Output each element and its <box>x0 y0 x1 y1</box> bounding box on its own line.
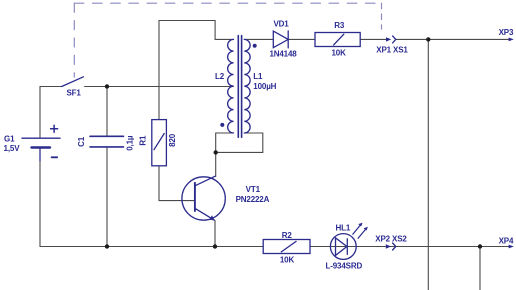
wire: bottom rail <box>40 246 510 248</box>
diode VD1 <box>273 31 288 48</box>
svg-text:PN2222A: PN2222A <box>236 195 270 204</box>
svg-text:VD1: VD1 <box>273 20 289 29</box>
svg-text:SF1: SF1 <box>66 88 81 97</box>
connector XP1 (plug arrow) <box>386 37 391 41</box>
svg-text:R3: R3 <box>334 21 345 30</box>
phase dot L2 <box>220 123 224 127</box>
wire: VD1 to R3 <box>288 38 315 40</box>
svg-text:100µH: 100µH <box>253 82 276 91</box>
transistor VT1 <box>182 176 225 220</box>
resistor R2 <box>263 240 310 254</box>
svg-text:L2: L2 <box>215 72 225 81</box>
svg-text:G1: G1 <box>4 135 15 144</box>
wire: emitter drop <box>214 221 216 247</box>
svg-text:1N4148: 1N4148 <box>269 50 297 59</box>
wire: C1 stubs <box>106 87 108 247</box>
transformer core <box>238 36 241 138</box>
wire: R1 top riser to L2 top <box>159 21 234 120</box>
svg-text:10K: 10K <box>331 48 346 57</box>
wire: top rail L1 to VD1 <box>244 38 273 40</box>
connector XP4 (arrow to edge) <box>509 245 514 249</box>
svg-text:1,5V: 1,5V <box>4 144 21 153</box>
connector XS1 (socket chevron) <box>393 36 396 43</box>
connector XS2 (socket chevron) <box>393 243 396 250</box>
wire: transformer bottom loop <box>216 133 263 152</box>
junction node top right <box>426 37 430 41</box>
connector XP3 (arrow to edge) <box>509 38 514 42</box>
switch SF1 <box>62 77 84 87</box>
junction node emitter bottom <box>213 244 217 248</box>
capacitor C1 <box>90 136 124 147</box>
wire: right vertical from bottom junction <box>479 247 481 290</box>
svg-text:HL1: HL1 <box>335 223 350 232</box>
wire: SF1 to L2 tap <box>85 86 234 88</box>
junction node bottom right <box>478 244 482 248</box>
phase dot L1 <box>253 44 257 48</box>
connector XP2 (plug arrow) <box>386 244 391 248</box>
svg-text:10K: 10K <box>280 256 295 265</box>
wire: R3 to XP1 <box>360 38 386 40</box>
wire: right vertical from top junction <box>427 39 429 290</box>
svg-text:C1: C1 <box>77 136 86 147</box>
svg-text:VT1: VT1 <box>246 185 261 194</box>
wire: SF1 left segment <box>40 86 62 88</box>
svg-text:0,1µ: 0,1µ <box>126 135 135 151</box>
LED HL1 <box>330 234 356 260</box>
wire: left rail battery to bottom <box>39 87 41 247</box>
svg-text:R2: R2 <box>282 231 293 240</box>
svg-text:R1: R1 <box>138 135 147 146</box>
dashed enclosure outline <box>73 3 75 77</box>
junction node C1 bottom <box>105 244 109 248</box>
svg-text:XP2 XS2: XP2 XS2 <box>375 235 407 244</box>
svg-text:820: 820 <box>168 133 177 147</box>
svg-text:XP3: XP3 <box>499 28 514 37</box>
battery G1 <box>22 125 60 161</box>
resistor R3 <box>315 33 360 47</box>
wire: collector riser <box>215 152 217 176</box>
svg-text:XP4: XP4 <box>499 236 514 245</box>
LED arrows <box>353 225 366 239</box>
junction node SF1/C1 <box>105 84 109 88</box>
junction node collector/transformer <box>214 150 218 154</box>
svg-text:L1: L1 <box>253 72 263 81</box>
svg-text:XP1 XS1: XP1 XS1 <box>376 45 408 54</box>
inductor L1 (secondary winding) <box>244 39 250 133</box>
wire: XS1 to XP3 <box>396 38 510 40</box>
svg-text:L-934SRD: L-934SRD <box>326 262 363 271</box>
resistor R1 <box>152 120 167 166</box>
wire: R1 bottom to base <box>159 166 194 201</box>
inductor L2 (primary winding, tapped) <box>228 39 234 133</box>
